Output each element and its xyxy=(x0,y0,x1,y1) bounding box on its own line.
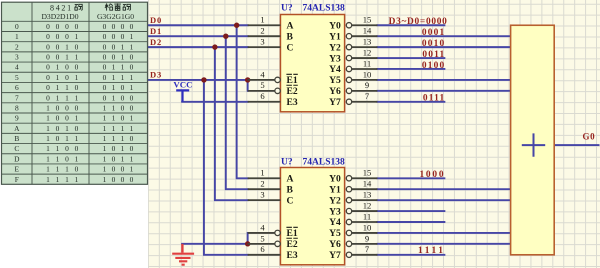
svg-text:0: 0 xyxy=(112,165,116,174)
svg-text:11: 11 xyxy=(363,211,371,221)
schematic sheet background xyxy=(148,0,600,268)
U1 output pin line Y5 xyxy=(346,77,351,82)
svg-text:0: 0 xyxy=(130,134,134,143)
svg-text:0: 0 xyxy=(75,63,79,72)
svg-text:1: 1 xyxy=(130,114,134,123)
svg-text:E1: E1 xyxy=(287,75,298,86)
svg-text:0: 0 xyxy=(46,53,50,62)
svg-text:1: 1 xyxy=(103,103,107,112)
svg-text:7: 7 xyxy=(365,244,370,254)
svg-text:Y1: Y1 xyxy=(329,184,341,195)
svg-text:1: 1 xyxy=(46,165,50,174)
svg-text:1: 1 xyxy=(46,134,50,143)
junction at U1 E1/E2 xyxy=(245,77,250,82)
svg-text:1111: 1111 xyxy=(418,246,446,256)
wire U2 Y6 output xyxy=(377,243,510,245)
svg-text:Y6: Y6 xyxy=(329,86,341,97)
wire U1 Y5 output xyxy=(377,79,510,81)
svg-text:9: 9 xyxy=(365,233,369,243)
U1 enable label E2 xyxy=(286,85,297,97)
svg-text:1: 1 xyxy=(130,32,134,41)
svg-text:B: B xyxy=(14,134,19,143)
wire G0 output xyxy=(554,144,599,146)
svg-text:1: 1 xyxy=(75,114,79,123)
junction D3 xyxy=(201,77,206,82)
wire U1 Y7 output xyxy=(377,101,444,103)
svg-text:8: 8 xyxy=(15,103,19,112)
svg-text:0: 0 xyxy=(112,32,116,41)
svg-text:D3: D3 xyxy=(150,70,162,80)
U1 inverted pin line row 6 xyxy=(248,90,275,92)
wire D3 to U1 pin E1 xyxy=(148,79,248,81)
svg-text:15: 15 xyxy=(363,15,372,25)
wire D0 down to U2 pin A xyxy=(237,25,248,178)
svg-text:1: 1 xyxy=(65,42,69,51)
svg-text:0: 0 xyxy=(65,114,69,123)
svg-text:0: 0 xyxy=(46,42,50,51)
svg-text:0: 0 xyxy=(130,175,134,184)
U2 output pin line Y4 xyxy=(346,219,351,224)
U1 output pin line Y1 xyxy=(346,33,351,38)
wire U2 Y5 output xyxy=(377,232,510,234)
svg-text:A: A xyxy=(287,173,294,184)
U1 left pin line row 1 xyxy=(248,35,281,37)
svg-text:1: 1 xyxy=(112,114,116,123)
svg-text:1: 1 xyxy=(56,154,60,163)
svg-text:9: 9 xyxy=(15,114,19,123)
svg-text:0: 0 xyxy=(65,22,69,31)
block part placeholder (sheet symbol) xyxy=(511,25,555,255)
svg-text:0: 0 xyxy=(112,175,116,184)
svg-text:12: 12 xyxy=(363,200,372,210)
svg-text:U?: U? xyxy=(281,157,293,167)
svg-text:0: 0 xyxy=(103,73,107,82)
svg-text:0001: 0001 xyxy=(422,28,446,38)
svg-text:0: 0 xyxy=(130,22,134,31)
svg-text:0: 0 xyxy=(130,103,134,112)
U2 output pin line Y5 xyxy=(346,230,351,235)
svg-text:0: 0 xyxy=(65,73,69,82)
U1 left pin line row 7 xyxy=(248,101,281,103)
svg-text:0: 0 xyxy=(112,144,116,153)
truth table panel background xyxy=(0,0,148,268)
svg-text:6: 6 xyxy=(260,91,265,101)
svg-text:1: 1 xyxy=(121,134,125,143)
svg-text:4: 4 xyxy=(260,222,265,232)
svg-text:1: 1 xyxy=(75,93,79,102)
svg-text:1: 1 xyxy=(103,114,107,123)
svg-text:Y5: Y5 xyxy=(329,228,341,239)
svg-text:1: 1 xyxy=(15,32,19,41)
svg-text:D1: D1 xyxy=(150,26,162,36)
U2 enable label E2 xyxy=(286,238,297,250)
svg-text:6: 6 xyxy=(260,244,265,254)
U2 left pin line row 0 xyxy=(248,177,281,179)
svg-text:1: 1 xyxy=(121,124,125,133)
svg-text:3: 3 xyxy=(260,190,264,200)
U1 output pin line Y7 xyxy=(346,99,351,104)
U2 output pin line Y3 xyxy=(346,208,351,213)
wire U1 Y2 output xyxy=(377,46,510,48)
svg-text:1: 1 xyxy=(121,63,125,72)
svg-text:1: 1 xyxy=(56,165,60,174)
svg-text:1: 1 xyxy=(103,154,107,163)
table row 7 xyxy=(15,93,134,102)
svg-text:A: A xyxy=(14,124,20,133)
svg-text:0: 0 xyxy=(121,114,125,123)
svg-text:0111: 0111 xyxy=(423,94,446,104)
U2 output pin line Y7 xyxy=(346,252,351,257)
svg-text:1: 1 xyxy=(103,175,107,184)
wire branch GND to U2 pin E1 xyxy=(247,233,249,244)
svg-text:1: 1 xyxy=(65,53,69,62)
U1 left pin line row 2 xyxy=(248,46,281,48)
U2 left pin line row 7 xyxy=(248,254,281,256)
svg-text:2: 2 xyxy=(15,42,19,51)
svg-text:74ALS138: 74ALS138 xyxy=(303,157,345,167)
table row 9 xyxy=(15,114,134,123)
svg-text:13: 13 xyxy=(363,37,372,47)
U2 enable label E1 xyxy=(286,227,297,239)
svg-text:E: E xyxy=(15,165,20,174)
svg-text:0: 0 xyxy=(56,32,60,41)
wire D3 down to U2 pin E3 xyxy=(204,80,248,255)
svg-text:1: 1 xyxy=(112,103,116,112)
svg-text:0: 0 xyxy=(121,165,125,174)
svg-text:1: 1 xyxy=(260,168,264,178)
svg-text:1: 1 xyxy=(56,175,60,184)
svg-text:B: B xyxy=(287,31,294,42)
wire D1 down to U2 pin B xyxy=(226,36,248,189)
svg-text:0: 0 xyxy=(121,93,125,102)
table row 6 xyxy=(15,83,134,92)
svg-text:0: 0 xyxy=(56,114,60,123)
svg-text:0: 0 xyxy=(121,22,125,31)
svg-text:0: 0 xyxy=(103,42,107,51)
svg-text:1: 1 xyxy=(75,32,79,41)
svg-text:Y4: Y4 xyxy=(329,64,341,75)
svg-text:0: 0 xyxy=(75,124,79,133)
svg-text:D2: D2 xyxy=(150,37,162,47)
table row 0 xyxy=(15,22,134,31)
svg-text:15: 15 xyxy=(363,168,372,178)
svg-text:0: 0 xyxy=(130,93,134,102)
svg-text:1: 1 xyxy=(65,83,69,92)
junction D2 xyxy=(212,44,217,49)
svg-text:1: 1 xyxy=(103,124,107,133)
ground symbol GND xyxy=(172,244,194,265)
svg-text:0: 0 xyxy=(56,134,60,143)
U2 output pin line Y0 xyxy=(346,176,351,181)
junction at U2 E1/E2 xyxy=(245,241,250,246)
svg-text:1: 1 xyxy=(130,124,134,133)
svg-text:5: 5 xyxy=(15,73,19,82)
svg-text:1: 1 xyxy=(65,93,69,102)
svg-text:7: 7 xyxy=(15,93,19,102)
table row 5 xyxy=(15,73,134,82)
U1 output pin line Y6 xyxy=(346,88,351,93)
svg-text:0: 0 xyxy=(112,53,116,62)
table row 2 xyxy=(15,42,134,51)
svg-text:D0: D0 xyxy=(150,15,162,25)
svg-text:Y0: Y0 xyxy=(329,173,341,184)
svg-text:1: 1 xyxy=(121,154,125,163)
svg-text:0: 0 xyxy=(75,22,79,31)
svg-text:Y0: Y0 xyxy=(329,20,341,31)
svg-text:1: 1 xyxy=(46,154,50,163)
svg-text:0: 0 xyxy=(15,22,19,31)
table row 1 xyxy=(15,32,134,41)
svg-text:11: 11 xyxy=(363,58,371,68)
svg-text:Y4: Y4 xyxy=(329,217,341,228)
svg-text:0: 0 xyxy=(103,32,107,41)
table row 4 xyxy=(15,63,134,72)
wire D2 down to U2 pin C xyxy=(215,47,248,200)
svg-text:1: 1 xyxy=(65,175,69,184)
wire U1 Y4 output xyxy=(377,68,444,70)
table row 3 xyxy=(15,53,134,62)
svg-text:1: 1 xyxy=(75,73,79,82)
U1 output pin line Y0 xyxy=(346,23,351,28)
svg-text:1: 1 xyxy=(112,83,116,92)
svg-text:E2: E2 xyxy=(287,86,298,97)
table row C xyxy=(14,144,133,153)
U1 enable label E3 xyxy=(287,97,298,108)
svg-text:1: 1 xyxy=(46,103,50,112)
svg-text:E3: E3 xyxy=(287,250,298,261)
svg-text:0: 0 xyxy=(65,103,69,112)
svg-text:1: 1 xyxy=(130,42,134,51)
wire U1 Y1 output xyxy=(377,35,510,37)
svg-text:E3: E3 xyxy=(287,97,298,108)
svg-text:1: 1 xyxy=(121,73,125,82)
wire D1 to U1 pin B xyxy=(148,35,248,37)
wire U2 Y0 output xyxy=(377,177,444,179)
wire U2 Y2 output xyxy=(377,199,510,201)
svg-text:0: 0 xyxy=(112,42,116,51)
U2 output pin line Y6 xyxy=(346,241,351,246)
wire U2 Y7 output xyxy=(377,254,444,256)
svg-text:0: 0 xyxy=(103,93,107,102)
svg-text:0: 0 xyxy=(46,83,50,92)
U2 enable label E3 xyxy=(287,250,298,261)
svg-text:3: 3 xyxy=(15,53,19,62)
svg-text:Y6: Y6 xyxy=(329,239,341,250)
svg-text:1: 1 xyxy=(65,165,69,174)
svg-text:Y2: Y2 xyxy=(329,195,341,206)
decoder IC U1 74ALS138 body xyxy=(280,15,344,112)
U2 output pin line Y2 xyxy=(346,197,351,202)
table row D xyxy=(14,154,134,163)
svg-text:6: 6 xyxy=(15,83,19,92)
svg-text:1: 1 xyxy=(65,124,69,133)
svg-text:0: 0 xyxy=(56,103,60,112)
wire U2 Y4 output xyxy=(377,221,444,223)
svg-text:0: 0 xyxy=(46,32,50,41)
svg-text:4: 4 xyxy=(15,63,19,72)
svg-text:Y7: Y7 xyxy=(329,250,341,261)
svg-text:0: 0 xyxy=(130,53,134,62)
svg-text:10: 10 xyxy=(363,222,372,232)
svg-text:0: 0 xyxy=(121,32,125,41)
svg-text:1: 1 xyxy=(75,134,79,143)
wire GND to U2 pin E2 xyxy=(182,243,248,245)
svg-text:13: 13 xyxy=(363,190,372,200)
svg-text:12: 12 xyxy=(363,47,372,57)
block cross marker xyxy=(522,133,545,156)
svg-text:1: 1 xyxy=(46,114,50,123)
svg-text:0: 0 xyxy=(46,63,50,72)
svg-text:D: D xyxy=(14,154,20,163)
U1 output pin line Y3 xyxy=(346,55,351,60)
svg-text:1: 1 xyxy=(46,144,50,153)
svg-text:1: 1 xyxy=(130,73,134,82)
svg-text:10: 10 xyxy=(363,69,372,79)
svg-text:14: 14 xyxy=(363,26,372,36)
svg-text:1: 1 xyxy=(56,144,60,153)
svg-text:0: 0 xyxy=(75,83,79,92)
svg-text:0: 0 xyxy=(103,63,107,72)
svg-text:D3D2D1D0: D3D2D1D0 xyxy=(41,12,78,21)
svg-text:5: 5 xyxy=(260,233,264,243)
svg-text:F: F xyxy=(15,175,19,184)
svg-text:0: 0 xyxy=(56,124,60,133)
svg-text:0100: 0100 xyxy=(422,61,446,71)
svg-text:1: 1 xyxy=(112,63,116,72)
wire U1 Y0 output xyxy=(377,24,444,26)
svg-text:0: 0 xyxy=(65,154,69,163)
table row E xyxy=(15,165,134,174)
table row 8 xyxy=(15,103,134,112)
svg-text:0: 0 xyxy=(65,144,69,153)
table row A xyxy=(14,124,134,133)
table row F xyxy=(15,175,134,184)
svg-text:VCC: VCC xyxy=(173,80,192,90)
svg-text:D3~D0=0000: D3~D0=0000 xyxy=(389,17,448,27)
U2 output pin line Y1 xyxy=(346,187,351,192)
wire U2 Y3 output xyxy=(377,210,444,212)
svg-text:1: 1 xyxy=(56,83,60,92)
svg-text:1: 1 xyxy=(103,165,107,174)
U1 left pin line row 0 xyxy=(248,24,281,26)
svg-text:1: 1 xyxy=(75,53,79,62)
svg-text:Y2: Y2 xyxy=(329,42,341,53)
svg-text:7: 7 xyxy=(365,91,370,101)
U2 inverted pin line row 5 xyxy=(248,232,275,234)
wire D0 to U1 pin A xyxy=(148,24,248,26)
wire U2 Y1 output xyxy=(377,188,510,190)
U2 inverted pin line row 6 xyxy=(248,243,275,245)
svg-text:0: 0 xyxy=(46,93,50,102)
svg-text:1: 1 xyxy=(112,134,116,143)
svg-text:C: C xyxy=(287,42,294,53)
svg-text:3: 3 xyxy=(260,37,264,47)
U2 left pin line row 2 xyxy=(248,199,281,201)
svg-text:74ALS138: 74ALS138 xyxy=(303,4,345,14)
svg-text:E1: E1 xyxy=(287,228,298,239)
svg-text:1: 1 xyxy=(112,93,116,102)
svg-text:0: 0 xyxy=(56,22,60,31)
svg-text:1: 1 xyxy=(75,175,79,184)
svg-text:1: 1 xyxy=(46,175,50,184)
svg-text:9: 9 xyxy=(365,80,369,90)
svg-text:1: 1 xyxy=(260,15,264,25)
svg-text:0: 0 xyxy=(56,42,60,51)
svg-text:E2: E2 xyxy=(287,239,298,250)
svg-text:0010: 0010 xyxy=(422,39,446,49)
svg-text:B: B xyxy=(287,184,294,195)
svg-text:1: 1 xyxy=(103,134,107,143)
svg-text:5: 5 xyxy=(260,80,264,90)
wire VCC to U1 pin E3 xyxy=(182,101,248,103)
svg-text:2: 2 xyxy=(260,179,264,189)
svg-text:0: 0 xyxy=(103,22,107,31)
decoder IC U2 74ALS138 body xyxy=(280,168,344,265)
U2 left pin line row 1 xyxy=(248,188,281,190)
svg-text:1: 1 xyxy=(65,134,69,143)
svg-text:0: 0 xyxy=(121,103,125,112)
svg-text:0: 0 xyxy=(130,63,134,72)
svg-text:0: 0 xyxy=(121,175,125,184)
svg-text:1: 1 xyxy=(112,73,116,82)
svg-text:0: 0 xyxy=(130,144,134,153)
svg-text:1: 1 xyxy=(56,73,60,82)
svg-text:0: 0 xyxy=(75,144,79,153)
svg-text:1: 1 xyxy=(112,124,116,133)
U1 output pin line Y2 xyxy=(346,44,351,49)
svg-text:Y7: Y7 xyxy=(329,97,341,108)
svg-text:14: 14 xyxy=(363,179,372,189)
svg-text:G3G2G1G0: G3G2G1G0 xyxy=(97,12,134,21)
svg-text:Y1: Y1 xyxy=(329,31,341,42)
svg-text:0011: 0011 xyxy=(422,50,445,60)
svg-text:U?: U? xyxy=(281,4,293,14)
svg-text:1: 1 xyxy=(121,53,125,62)
svg-text:1: 1 xyxy=(130,165,134,174)
junction D1 xyxy=(223,33,228,38)
svg-text:G0: G0 xyxy=(582,131,595,141)
svg-text:2: 2 xyxy=(260,26,264,36)
svg-text:1: 1 xyxy=(130,154,134,163)
svg-text:1: 1 xyxy=(56,63,60,72)
svg-text:0: 0 xyxy=(121,83,125,92)
svg-text:Y5: Y5 xyxy=(329,75,341,86)
svg-text:0: 0 xyxy=(103,53,107,62)
wire U1 Y6 output xyxy=(377,90,510,92)
power symbol VCC xyxy=(173,80,192,102)
svg-text:0: 0 xyxy=(75,165,79,174)
svg-text:C: C xyxy=(287,195,294,206)
svg-text:Y3: Y3 xyxy=(329,206,341,217)
svg-text:A: A xyxy=(287,20,294,31)
U1 inverted pin line row 5 xyxy=(248,79,275,81)
svg-text:0: 0 xyxy=(75,103,79,112)
svg-text:C: C xyxy=(14,144,19,153)
svg-text:4: 4 xyxy=(260,69,265,79)
svg-text:1: 1 xyxy=(75,154,79,163)
wire U1 Y3 output xyxy=(377,57,444,59)
svg-text:1000: 1000 xyxy=(419,170,445,180)
svg-text:1: 1 xyxy=(121,144,125,153)
svg-text:0: 0 xyxy=(65,32,69,41)
U1 enable label E1 xyxy=(286,74,297,86)
svg-text:0: 0 xyxy=(75,42,79,51)
svg-text:0: 0 xyxy=(112,22,116,31)
table row B xyxy=(14,134,133,143)
junction D0 xyxy=(234,23,239,28)
svg-text:1: 1 xyxy=(130,83,134,92)
wire branch D3 to U1 pin E2 xyxy=(247,80,249,91)
